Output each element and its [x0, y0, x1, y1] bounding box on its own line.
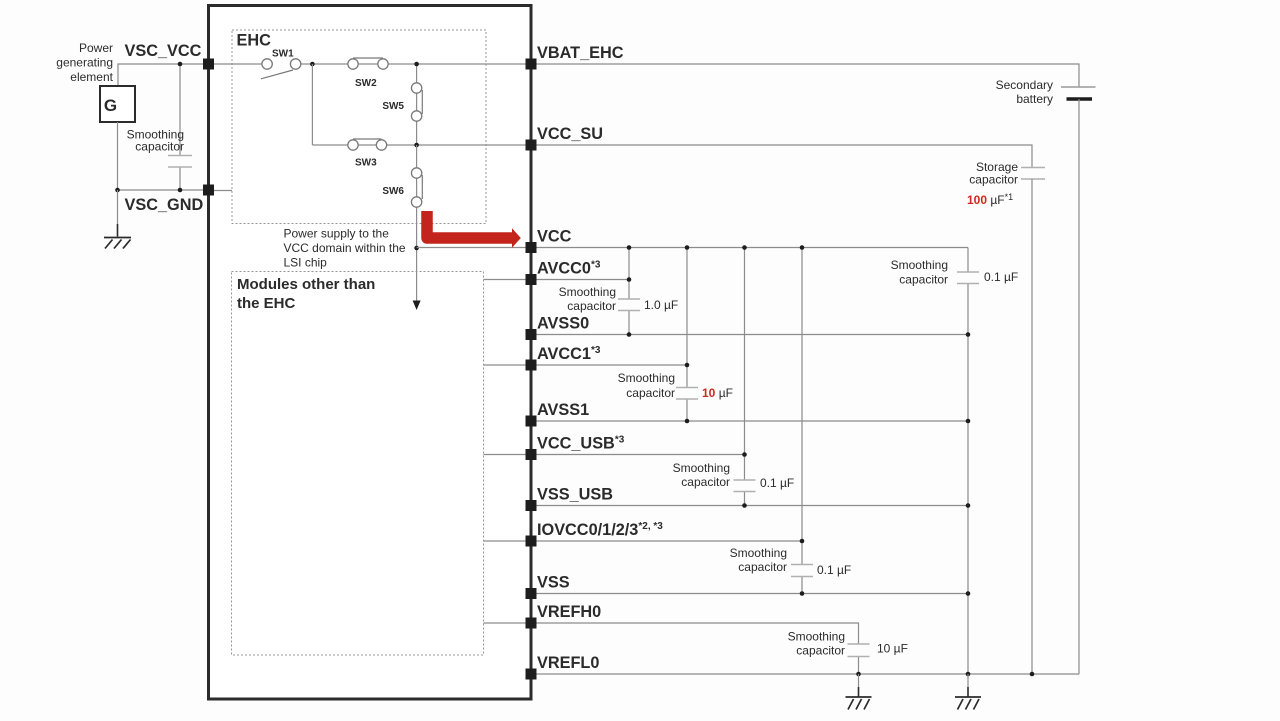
pin VSC_GND (left)	[203, 185, 214, 196]
wire AVCC1 rail	[531, 364, 687, 366]
annotation: Power generating element	[56, 41, 113, 84]
node VCC_USB rail x744.5	[742, 452, 747, 457]
node IOVCC rail x802	[800, 539, 805, 544]
wire modules block to AVCC0 pin	[484, 279, 532, 281]
pin VSS	[526, 588, 537, 599]
label: Smoothing capacitor (C3)	[618, 371, 675, 400]
pin VSC_VCC (left)	[203, 59, 214, 70]
svg-text:AVCC0*3: AVCC0*3	[537, 259, 601, 277]
node VSS rail x968	[966, 591, 971, 596]
node VCC rail x802	[800, 245, 805, 250]
node junction VCC_SU row / SW5 / SW6	[414, 143, 419, 148]
wire VSC_GND stub into EHC block	[214, 190, 232, 192]
node AVCC0 rail x629	[627, 277, 632, 282]
node VSS_USB rail x968	[966, 503, 971, 508]
node AVSS0 rail x629	[627, 332, 632, 337]
svg-text:VCC domain within the: VCC domain within the	[284, 241, 406, 255]
node VREFL0 rail x968	[966, 672, 971, 677]
wire VSS rail	[531, 593, 968, 595]
svg-text:Smoothing: Smoothing	[891, 258, 948, 272]
svg-text:EHC: EHC	[237, 32, 272, 50]
label: Smoothing capacitor (C2)	[559, 285, 616, 313]
capacitor C8 storage 100uF	[1021, 168, 1045, 675]
label: Storage capacitor	[969, 160, 1018, 187]
node AVSS1 rail x968	[966, 419, 971, 424]
svg-text:AVSS0: AVSS0	[537, 314, 589, 332]
svg-text:capacitor: capacitor	[681, 475, 730, 489]
svg-text:1.0 µF: 1.0 µF	[644, 298, 678, 312]
label: Smoothing capacitor (C6)	[788, 630, 845, 658]
svg-text:battery: battery	[1016, 92, 1053, 106]
pin AVCC1	[526, 360, 537, 371]
svg-text:the EHC: the EHC	[237, 295, 296, 312]
svg-text:Power supply to the: Power supply to the	[284, 227, 390, 241]
svg-text:capacitor: capacitor	[969, 173, 1018, 187]
wire IOVCC rail	[531, 540, 802, 542]
svg-text:VREFH0: VREFH0	[537, 603, 601, 621]
capacitor C6 smoothing 10uF (VREFH0-VREFL0)	[848, 644, 870, 674]
node AVSS1 rail x687	[685, 419, 690, 424]
ground (VSC_GND)	[104, 190, 131, 249]
capacitor C5 smoothing 0.1uF (IOVCC-VSS)	[791, 248, 813, 594]
svg-text:G: G	[104, 96, 117, 115]
node G1 / VSC_GND	[115, 188, 120, 193]
ground (main ground column)	[955, 674, 981, 710]
wire SW6 branch down to VCC feed node and modules arrow	[416, 145, 418, 301]
svg-text:SW5: SW5	[382, 101, 404, 112]
svg-text:VREFL0: VREFL0	[537, 654, 599, 672]
red power-flow arrow (VCC domain supply path)	[427, 211, 521, 248]
switch SW6	[411, 168, 422, 207]
svg-text:Power: Power	[79, 41, 113, 55]
label: Smoothing capacitor (C7)	[891, 258, 948, 287]
capacitor C4 smoothing 0.1uF (VCC_USB-VSS_USB)	[734, 248, 756, 506]
svg-text:Smoothing: Smoothing	[673, 461, 730, 475]
svg-text:0.1 µF: 0.1 µF	[760, 476, 794, 490]
chip U1 LSI outline	[209, 6, 532, 700]
svg-text:capacitor: capacitor	[738, 560, 787, 574]
svg-text:IOVCC0/1/2/3*2, *3: IOVCC0/1/2/3*2, *3	[537, 521, 663, 539]
node junction SW1 / SW2 / branch to SW3	[310, 62, 315, 67]
svg-text:VBAT_EHC: VBAT_EHC	[537, 44, 624, 62]
svg-text:capacitor: capacitor	[626, 386, 675, 400]
svg-text:SW1: SW1	[272, 48, 294, 59]
wire VCC rail	[531, 247, 968, 249]
pin VBAT_EHC	[526, 59, 537, 70]
wire modules block to VREFH0 pin	[484, 622, 532, 624]
capacitor C3 smoothing 10uF (AVCC1-AVSS1)	[676, 248, 698, 422]
pin AVCC0	[526, 274, 537, 285]
capacitor C7 smoothing 0.1uF (VCC rail - ground column)	[957, 248, 979, 675]
svg-text:VCC: VCC	[537, 227, 572, 245]
svg-text:element: element	[70, 70, 113, 84]
svg-text:10 µF: 10 µF	[877, 642, 908, 656]
svg-text:100 µF*1: 100 µF*1	[967, 192, 1013, 207]
svg-text:generating: generating	[56, 56, 113, 70]
wire VCC_USB rail	[531, 454, 745, 456]
pin VREFL0	[526, 669, 537, 680]
svg-text:capacitor: capacitor	[567, 299, 616, 313]
svg-text:VCC_SU: VCC_SU	[537, 125, 603, 143]
generator G1 (power generating element)	[100, 86, 135, 122]
pin AVSS0	[526, 329, 537, 340]
pin VSS_USB	[526, 500, 537, 511]
svg-text:Smoothing: Smoothing	[559, 285, 616, 299]
wire VSC_GND net	[118, 189, 209, 191]
svg-text:Secondary: Secondary	[996, 78, 1053, 92]
svg-text:LSI chip: LSI chip	[284, 256, 328, 270]
node VSS_USB rail x744.5	[742, 503, 747, 508]
node VREFL0 rail x1032	[1030, 672, 1035, 677]
wire VSS_USB rail	[531, 505, 968, 507]
pin VCC_USB	[526, 449, 537, 460]
svg-text:Modules other than: Modules other than	[237, 276, 375, 293]
capacitor C1 smoothing (VSC)	[168, 64, 192, 190]
wire AVCC0 rail	[531, 279, 629, 281]
pin IOVCC0/1/2/3	[526, 536, 537, 547]
capacitor C2 smoothing 1.0uF (AVCC0-AVSS0)	[618, 248, 640, 335]
svg-text:capacitor: capacitor	[796, 644, 845, 658]
svg-text:Smoothing: Smoothing	[618, 371, 675, 385]
battery BT1 secondary battery	[1061, 87, 1096, 674]
svg-text:VCC_USB*3: VCC_USB*3	[537, 434, 625, 452]
wire VSC_VCC net (generator to chip pin)	[118, 64, 208, 86]
block EHC (dashed box)	[232, 30, 486, 224]
wire SW5 branch (VBAT row to VCC_SU row)	[416, 64, 418, 145]
svg-text:AVCC1*3: AVCC1*3	[537, 345, 601, 363]
svg-text:AVSS1: AVSS1	[537, 401, 589, 419]
switch SW5	[411, 83, 422, 121]
switch SW2	[348, 58, 388, 69]
pin VREFH0	[526, 618, 537, 629]
svg-text:VSC_GND: VSC_GND	[125, 196, 204, 214]
wire modules block to VCC_USB pin	[484, 454, 532, 456]
svg-text:SW6: SW6	[382, 186, 404, 197]
block Modules other than the EHC (dashed box)	[232, 272, 484, 656]
label: Smoothing capacitor (C4)	[673, 461, 730, 489]
ground (below C6 / VREFL0)	[846, 674, 872, 710]
node AVSS0 rail x968	[966, 332, 971, 337]
svg-text:VSS: VSS	[537, 573, 570, 591]
svg-text:VSC_VCC: VSC_VCC	[125, 42, 202, 60]
wire VCC feed to VCC pin	[417, 247, 531, 249]
switch SW1	[261, 59, 301, 79]
node junction VCC feed	[414, 246, 419, 251]
label Modules other than the EHC	[237, 276, 375, 312]
wire modules block to AVCC1 pin	[484, 364, 532, 366]
switch SW3	[348, 139, 387, 150]
svg-text:0.1 µF: 0.1 µF	[984, 270, 1018, 284]
wire VCC_SU rail to storage capacitor	[531, 145, 1032, 167]
svg-text:Smoothing: Smoothing	[788, 630, 845, 644]
wire AVSS0 rail	[531, 334, 968, 336]
svg-text:VSS_USB: VSS_USB	[537, 485, 613, 503]
node AVCC1 rail x687	[685, 363, 690, 368]
node VSC_VCC / C1 top	[178, 62, 183, 67]
pin VCC_SU	[526, 140, 537, 151]
node C1 bottom / VSC_GND	[178, 188, 183, 193]
wire VBAT_EHC row inside chip (through SW1, SW2)	[209, 63, 532, 65]
node VCC rail x744.5	[742, 245, 747, 250]
label: Secondary battery	[996, 78, 1053, 106]
svg-text:Smoothing: Smoothing	[730, 546, 787, 560]
wire generator G1 to VSC_GND net	[117, 122, 119, 190]
wire modules block to IOVCC pin	[484, 540, 532, 542]
arrowhead: power supply into modules block	[413, 301, 421, 311]
svg-text:capacitor: capacitor	[135, 140, 184, 154]
wire VBAT_EHC rail to secondary battery	[531, 64, 1079, 87]
svg-text:10 µF: 10 µF	[702, 386, 733, 400]
wire VCC_SU row inside chip (through SW3)	[312, 144, 531, 146]
wire AVSS1 rail	[531, 420, 968, 422]
node VREFL0 rail x858.5	[856, 672, 861, 677]
label: Smoothing capacitor (C5)	[730, 546, 787, 574]
wire branch down to SW3 row	[311, 64, 313, 145]
label: Smoothing capacitor (C1)	[127, 128, 184, 154]
svg-text:capacitor: capacitor	[899, 273, 948, 287]
svg-text:0.1 µF: 0.1 µF	[817, 563, 851, 577]
node VSS rail x802	[800, 591, 805, 596]
node junction VBAT row / SW5	[414, 62, 419, 67]
pin VCC	[526, 242, 537, 253]
svg-text:SW2: SW2	[355, 78, 377, 89]
wire VREFH0 rail	[531, 623, 859, 644]
node VCC rail x629	[627, 245, 632, 250]
svg-text:SW3: SW3	[355, 158, 377, 169]
annotation: Power supply to the VCC domain within the LSI chip	[284, 227, 406, 270]
wire VREFL0 / ground rail	[531, 673, 1079, 675]
node VCC rail x687	[685, 245, 690, 250]
pin AVSS1	[526, 416, 537, 427]
